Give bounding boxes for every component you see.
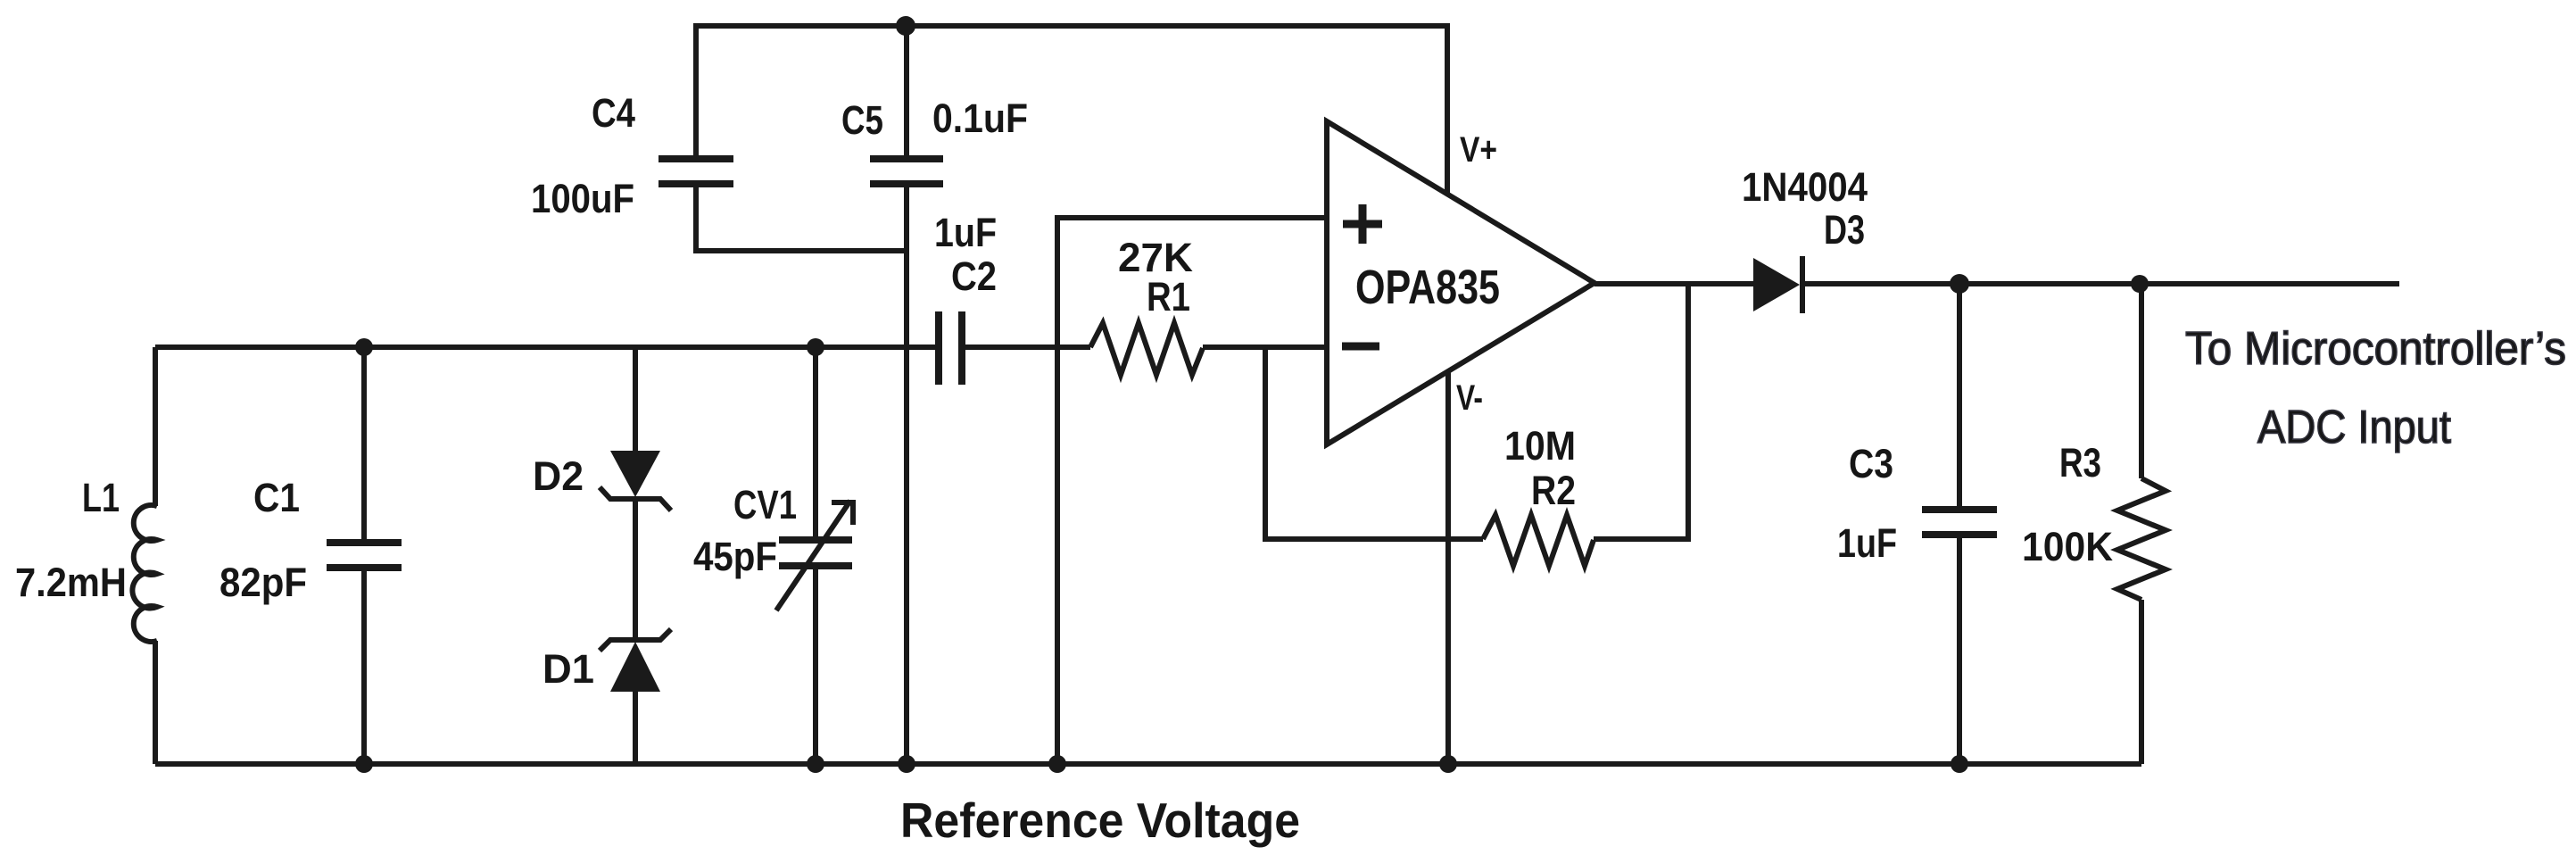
svg-text:Reference Voltage: Reference Voltage (900, 793, 1300, 848)
capacitor C1 (327, 543, 402, 568)
wire C5 bottom lead down to reference rail (904, 184, 909, 764)
svg-text:82pF: 82pF (219, 560, 307, 605)
op-amp plus input symbol (1343, 204, 1382, 244)
wire C1 top lead (361, 347, 367, 543)
wire C3 bottom lead (1957, 535, 1962, 764)
svg-text:R2: R2 (1531, 468, 1576, 513)
junction signal/C1 (355, 338, 373, 356)
junction rail/C3 (1951, 755, 1968, 773)
wire R1 to inverting input (1203, 344, 1327, 350)
resistor R1 (1090, 323, 1203, 375)
wire R2 to output node (1594, 284, 1688, 539)
svg-text:0.1uF: 0.1uF (932, 95, 1028, 141)
wire between D2 and D1 (633, 499, 638, 640)
wire C5 top lead (904, 26, 909, 159)
wire CV1 top lead (813, 347, 818, 540)
wire C2 to R1 (962, 344, 1090, 350)
svg-text:L1: L1 (82, 475, 120, 520)
op-amp U1 OPA835 (1327, 121, 1594, 444)
junction rail/non-inverting branch (1048, 755, 1066, 773)
svg-text:C5: C5 (841, 97, 883, 143)
variable capacitor CV1 (776, 501, 853, 610)
wire C3 top lead (1957, 284, 1962, 510)
svg-text:1N4004: 1N4004 (1742, 164, 1868, 210)
wire C1 bottom lead (361, 568, 367, 764)
capacitor C3 (1922, 510, 1997, 535)
svg-text:100K: 100K (2022, 524, 2113, 569)
capacitor C5 (870, 159, 943, 184)
junction rail/CV1 (807, 755, 824, 773)
svg-text:C3: C3 (1849, 441, 1893, 486)
svg-text:1uF: 1uF (934, 210, 997, 255)
junction rail/V- (1439, 755, 1457, 773)
svg-text:1uF: 1uF (1837, 520, 1897, 566)
svg-text:To Microcontroller’s: To Microcontroller’s (2185, 323, 2566, 375)
wire L1 bottom lead (153, 641, 158, 764)
inductor L1 (132, 505, 157, 642)
svg-text:D3: D3 (1824, 207, 1865, 253)
svg-text:C2: C2 (951, 253, 997, 299)
wire non-inverting input from reference rail (1057, 218, 1327, 764)
svg-text:100uF: 100uF (531, 176, 634, 221)
wire D3 to output end (1804, 281, 2399, 286)
svg-text:OPA835: OPA835 (1355, 261, 1500, 314)
wire reference voltage bottom rail (155, 761, 2141, 767)
junction rail/C5 ground (898, 755, 915, 773)
junction output/C3 (1950, 274, 1969, 294)
wire R3 top lead (2139, 284, 2144, 478)
svg-text:D2: D2 (533, 453, 584, 499)
wire V- drop to reference rail (1445, 372, 1451, 764)
capacitor C2 (939, 311, 962, 385)
svg-text:D1: D1 (543, 646, 594, 692)
svg-text:45pF: 45pF (693, 534, 777, 579)
svg-text:10M: 10M (1504, 423, 1576, 469)
op-amp minus input symbol (1342, 343, 1379, 351)
junction rail/C1 (355, 755, 373, 773)
diode D3 (1753, 256, 1802, 313)
svg-text:C1: C1 (253, 475, 300, 520)
wire D2 top lead (633, 347, 638, 453)
resistor R3 (2117, 478, 2166, 600)
svg-text:C4: C4 (592, 90, 635, 136)
wire D1 bottom lead (633, 692, 638, 764)
capacitor C4 (658, 159, 733, 184)
wire tank top signal line (155, 344, 939, 350)
wire L1 top lead (153, 347, 158, 506)
wire C4 top lead, top supply rail and V+ drop (696, 26, 1447, 195)
junction signal/CV1 (807, 338, 824, 356)
junction top rail / C5 (896, 16, 915, 36)
svg-text:CV1: CV1 (733, 482, 797, 527)
svg-text:ADC Input: ADC Input (2257, 402, 2452, 453)
zener diode D2 (600, 451, 671, 511)
resistor R2 (1483, 515, 1594, 566)
svg-text:V-: V- (1456, 378, 1483, 418)
wire feedback from inverting node down and right to R2 (1265, 347, 1483, 539)
zener diode D1 (600, 629, 671, 692)
wire C4 bottom lead and decoupling loop bottom (696, 184, 907, 251)
svg-text:7.2mH: 7.2mH (15, 560, 127, 605)
svg-text:V+: V+ (1460, 130, 1497, 170)
svg-text:R1: R1 (1147, 274, 1190, 320)
wire CV1 bottom lead (813, 566, 818, 764)
wire R3 bottom lead (2139, 600, 2144, 764)
junction output/R3 (2131, 275, 2149, 293)
svg-text:R3: R3 (2059, 440, 2101, 486)
wire op-amp output to D3 (1594, 281, 1753, 286)
